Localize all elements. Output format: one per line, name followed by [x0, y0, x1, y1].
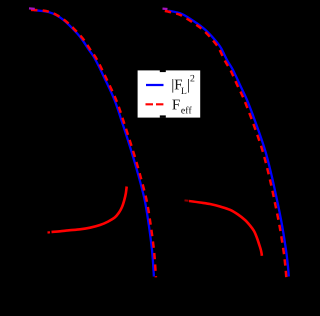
legend label |F_L|^2 [172, 75, 194, 94]
F_eff left panel lower branch (red solid) [52, 187, 127, 232]
curve |F_L|^2 left panel (blue solid) [34, 10, 154, 276]
curve F_eff left panel upper branch (red dashed) [31, 10, 156, 277]
F_eff right panel lower branch (red solid) [189, 201, 262, 256]
legend red dashed line sample [146, 103, 164, 105]
legend blue line sample [146, 84, 164, 86]
axis tick notch top of legend [160, 70, 166, 72]
axis tick notch bottom of legend [160, 115, 166, 117]
magenta overlap dash at left curve start [29, 7, 35, 10]
leading faint segment of right lower branch [185, 199, 189, 201]
magenta overlap dash at right curve start [163, 8, 168, 11]
legend box [138, 70, 201, 117]
curve F_eff right panel upper branch (red dashed) [165, 11, 286, 277]
legend label F_eff [172, 100, 191, 114]
curve |F_L|^2 right panel (blue solid) [169, 11, 289, 277]
leading dash of left lower branch [48, 231, 51, 233]
